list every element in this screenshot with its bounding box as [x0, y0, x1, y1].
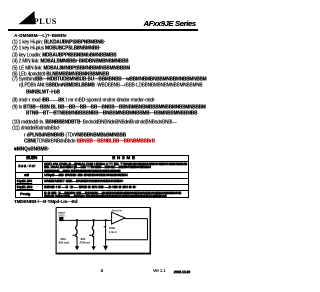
node J3 — [105, 219, 107, 221]
ground G3 — [105, 244, 107, 246]
wire : op-amp output — [125, 218, 148, 220]
wire : feedback loop — [106, 219, 148, 240]
section heading — [14, 148, 49, 154]
transistor Q1 — [73, 221, 78, 240]
svg-text:(PW): (PW) — [58, 214, 64, 218]
svg-text:PLUS: PLUS — [34, 16, 57, 25]
application circuit figure — [55, 206, 152, 256]
wire : input bus — [61, 220, 111, 222]
company line under logo — [14, 34, 68, 39]
header cells — [26, 156, 37, 161]
svg-text:Audio: Audio — [112, 209, 122, 213]
svg-text:8Ωl bad: 8Ωl bad — [59, 241, 70, 245]
footer page number — [101, 269, 103, 274]
figure frame — [56, 207, 150, 209]
logo APLUS — [0, 1, 70, 33]
header rule — [8, 29, 198, 31]
node J1 — [76, 219, 78, 221]
transistor Q2 — [89, 221, 94, 240]
row 3 — [17, 179, 32, 184]
input pad — [59, 217, 63, 221]
feature list — [12, 40, 105, 46]
op-amp U1 — [112, 212, 125, 224]
transistor Q3 gate tick — [104, 221, 106, 245]
node J2 — [93, 219, 95, 221]
row 5 — [20, 192, 30, 197]
footer version — [153, 269, 165, 274]
svg-text:1.0u h: 1.0u h — [109, 230, 117, 234]
row 1 — [18, 164, 36, 169]
ground G1 — [76, 239, 78, 246]
row 2 — [24, 173, 29, 178]
ground G2 — [93, 239, 95, 246]
header title — [144, 19, 196, 28]
pin table — [15, 155, 189, 197]
row 4 — [17, 185, 34, 190]
figure caption — [14, 200, 77, 205]
svg-text:PΩll-ad: PΩll-ad — [80, 241, 90, 245]
